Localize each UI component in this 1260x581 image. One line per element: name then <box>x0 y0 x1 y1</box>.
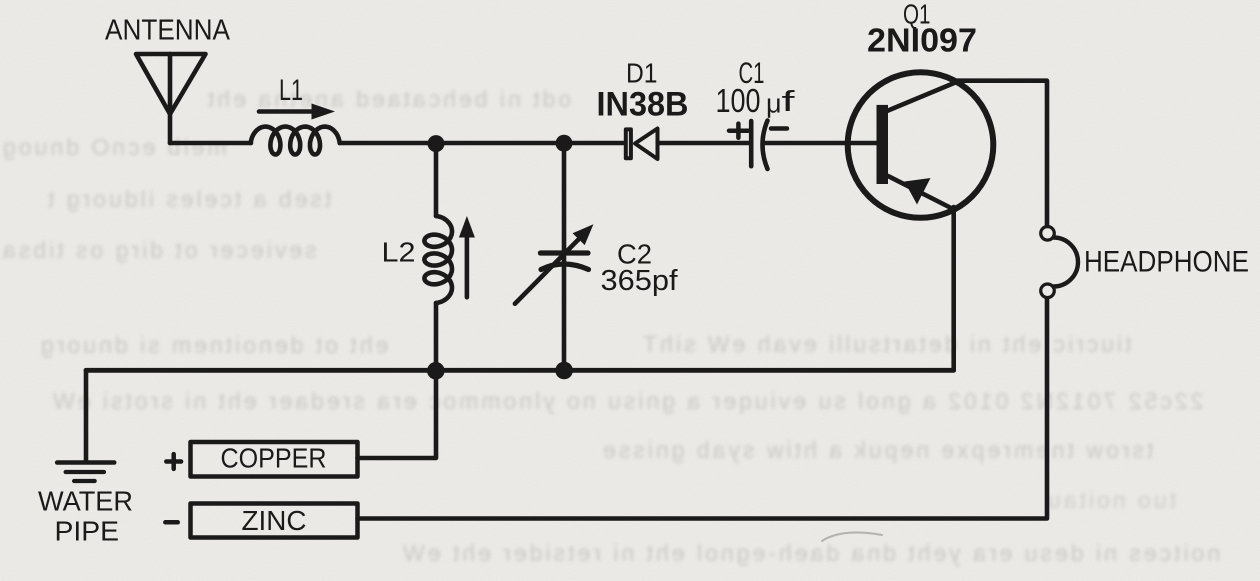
svg-text:L1: L1 <box>279 74 303 107</box>
wire C1 to transistor base <box>763 141 877 146</box>
wire antenna to L1 <box>170 141 251 146</box>
svg-text:WATER: WATER <box>38 486 133 517</box>
capacitor C1 flat plate <box>749 121 754 166</box>
L2 direction arrow <box>459 216 475 297</box>
wire bus to ground <box>84 370 89 460</box>
zinc electrode box <box>191 504 358 538</box>
svg-text:L2: L2 <box>382 237 416 268</box>
copper electrode plus sign <box>166 454 181 469</box>
diode D1 symbol <box>626 129 658 160</box>
C1 minus sign <box>771 126 787 131</box>
svg-text:f: f <box>782 86 797 118</box>
faint bleed-through text rows (decorative) <box>205 86 571 113</box>
wire collector to headphone <box>957 81 1047 226</box>
L1 direction arrow <box>259 104 335 120</box>
headphone bottom terminal <box>1041 284 1055 298</box>
capacitor C2 top plate <box>540 250 588 255</box>
headphone top terminal <box>1041 227 1055 241</box>
wire emitter to bus <box>951 207 956 370</box>
C1 plus sign <box>729 124 748 138</box>
svg-text:ZINC: ZINC <box>242 505 307 536</box>
svg-text:365pf: 365pf <box>601 265 679 297</box>
svg-text:μ: μ <box>766 89 782 119</box>
transistor Q1 emitter line <box>887 176 954 210</box>
faint squiggle mark (decorative) <box>822 533 882 541</box>
svg-text:ANTENNA: ANTENNA <box>105 15 231 47</box>
capacitor C2 curved plate <box>541 264 589 270</box>
wire node to C2 <box>562 143 567 370</box>
node junction dot (tank top left) <box>428 135 445 152</box>
node junction dot (bus at C2) <box>555 362 573 380</box>
transistor Q1 circle <box>848 72 994 218</box>
node junction dot (bus at L2) <box>427 362 445 380</box>
antenna symbol <box>136 54 206 143</box>
svg-text:D1: D1 <box>626 58 658 89</box>
svg-text:PIPE: PIPE <box>55 516 120 547</box>
svg-text:2NI097: 2NI097 <box>867 22 977 59</box>
copper electrode box <box>191 442 358 477</box>
wire node to L2 <box>434 144 439 216</box>
wire copper to bus <box>358 370 437 458</box>
transistor Q1 emitter arrowhead <box>905 178 931 205</box>
wire L1 to diode <box>340 141 623 146</box>
headphone coil arc <box>1054 238 1079 287</box>
zinc electrode minus sign <box>165 520 178 525</box>
transistor Q1 base bar <box>877 105 889 184</box>
C2 variable arrow <box>515 224 594 304</box>
svg-text:100: 100 <box>716 82 761 119</box>
wire diode to C1 <box>659 141 751 146</box>
wire L2 to bus <box>434 303 439 370</box>
ground bus wire <box>86 368 954 373</box>
node junction dot (tank top right) <box>556 135 573 152</box>
svg-text:COPPER: COPPER <box>221 443 327 474</box>
inductor L1 coil <box>251 127 340 155</box>
svg-text:HEADPHONE: HEADPHONE <box>1084 246 1249 279</box>
capacitor C1 curved plate <box>763 121 768 170</box>
ground symbol (water pipe) <box>57 463 114 482</box>
inductor L2 coil <box>424 216 452 303</box>
transistor Q1 collector line <box>887 81 960 111</box>
wire zinc to headphone <box>358 299 1048 519</box>
svg-text:IN38B: IN38B <box>597 86 689 124</box>
